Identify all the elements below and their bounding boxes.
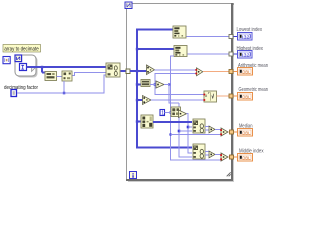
- node1: array size: [45, 72, 57, 81]
- wire: V170 long distribution (divisor net): [171, 56, 222, 160]
- junction: [41, 66, 44, 69]
- svg-text:decimating factor: decimating factor: [4, 85, 38, 91]
- wire: divide2 out orange: [228, 131, 230, 133]
- tunnel median: [230, 130, 234, 134]
- wire: node5 out (orange): [217, 95, 230, 97]
- node6: add/offset: [171, 107, 181, 117]
- indicator [I32] lowest: [238, 33, 253, 41]
- wire: decimating factor riser to node2: [63, 81, 65, 93]
- svg-text:array to decimate: array to decimate: [4, 47, 39, 53]
- label: array to decimate: [3, 45, 41, 53]
- wire: T1 out to divide1: [155, 69, 197, 71]
- wire: divide1 out (orange): [203, 71, 229, 73]
- node2: quotient-remainder: [62, 71, 72, 81]
- tunnel middle: [230, 155, 234, 159]
- N terminal: [125, 2, 132, 9]
- junction on DF wire: [63, 92, 66, 95]
- node8: index array (median): [193, 119, 205, 133]
- node B: array max-min (second): [174, 46, 187, 57]
- triangle T4: [179, 110, 187, 118]
- small N-like blue box on container corner: [15, 55, 22, 62]
- tunnel left: [126, 69, 130, 74]
- wire: node7 out to node8: [153, 121, 192, 123]
- wire: node3 out to tunnel: [121, 70, 138, 72]
- triangle T6: add: [209, 151, 215, 158]
- node3: decimate 1D array: [106, 63, 120, 77]
- wire: const1 to node6: [165, 112, 172, 114]
- svg-text:Lowest index: Lowest index: [237, 27, 263, 33]
- wire: V179 down to node9: [179, 103, 192, 157]
- wire: node4 out to split dot: [150, 84, 156, 86]
- svg-text:I32: I32: [242, 52, 250, 57]
- wire: T6 out to divide3: [215, 154, 221, 156]
- node7: sort 1D array: [141, 115, 153, 128]
- wire: T2 out joins V170: [164, 85, 179, 104]
- main array distribution wire V137: [137, 30, 173, 72]
- indicator DBL geometric: [238, 93, 253, 101]
- tunnel highest: [229, 52, 233, 56]
- wire: T5 out to divide2: [215, 129, 221, 131]
- svg-text:DBL: DBL: [242, 156, 251, 161]
- divide2: median: [220, 128, 228, 136]
- wire: node B out to Highest index: [188, 53, 230, 55]
- triangle T3: multiply array elements: [143, 96, 152, 105]
- wire: T3 out to node5: [151, 99, 204, 101]
- wire: V156 n-split: [155, 74, 204, 95]
- node A: array max-min (top): [173, 26, 186, 38]
- junction dots on V137: [136, 48, 139, 51]
- wire: node A out to Lowest index: [187, 36, 230, 38]
- wires: node9 outs to T6: [205, 151, 209, 153]
- svg-text:1: 1: [161, 111, 164, 117]
- wire: branch down to array-size node: [42, 67, 46, 73]
- indicator DBL median: [238, 129, 253, 137]
- inner element box [i]: [20, 64, 27, 71]
- tunnel arithmetic: [229, 70, 233, 74]
- triangle T5: add: [209, 126, 215, 133]
- triangle T1: add array elements: [147, 65, 155, 75]
- wires: node8 outs to T5: [205, 126, 209, 128]
- wire: divide3 out orange: [228, 156, 230, 158]
- indicator [I32] highest: [238, 51, 253, 59]
- for loop frame: [126, 3, 234, 182]
- constant 1: [160, 110, 165, 117]
- svg-text:Geometric mean: Geometric mean: [239, 87, 269, 93]
- tunnel geometric: [229, 94, 233, 98]
- svg-text:DBL: DBL: [242, 95, 251, 100]
- tunnel lowest: [229, 35, 233, 39]
- node4: array size (inner): [141, 80, 150, 87]
- indicator DBL arithmetic: [238, 68, 253, 76]
- svg-text:DBL: DBL: [242, 70, 251, 75]
- loop grip bottom-right: [227, 173, 231, 177]
- wire: array out (2px blue): [27, 66, 107, 68]
- node9: index array (middle): [193, 144, 205, 159]
- wire: divisor to divide2: [171, 134, 222, 136]
- divide1: arithmetic mean: [195, 68, 202, 76]
- triangle T2: half: [156, 81, 164, 88]
- i terminal: [130, 172, 137, 179]
- indicator DBL middle: [238, 154, 253, 162]
- array control terminal (icon view): [15, 55, 38, 78]
- svg-text:I32: I32: [242, 34, 250, 39]
- wire: decimating factor: [17, 75, 106, 93]
- array index box (outside): [3, 57, 10, 64]
- wire: node1 to node2: [57, 76, 63, 78]
- wire: T4 out down V188: [187, 114, 193, 154]
- divide3: middle index: [220, 153, 228, 161]
- decimating factor control: [11, 90, 17, 97]
- node5: x^(1/y) geometric: [203, 91, 216, 102]
- wire: tunnel to sum triangle: [130, 70, 147, 72]
- svg-text:DBL: DBL: [242, 131, 251, 136]
- wire: node2 out to decimate node: [73, 73, 107, 76]
